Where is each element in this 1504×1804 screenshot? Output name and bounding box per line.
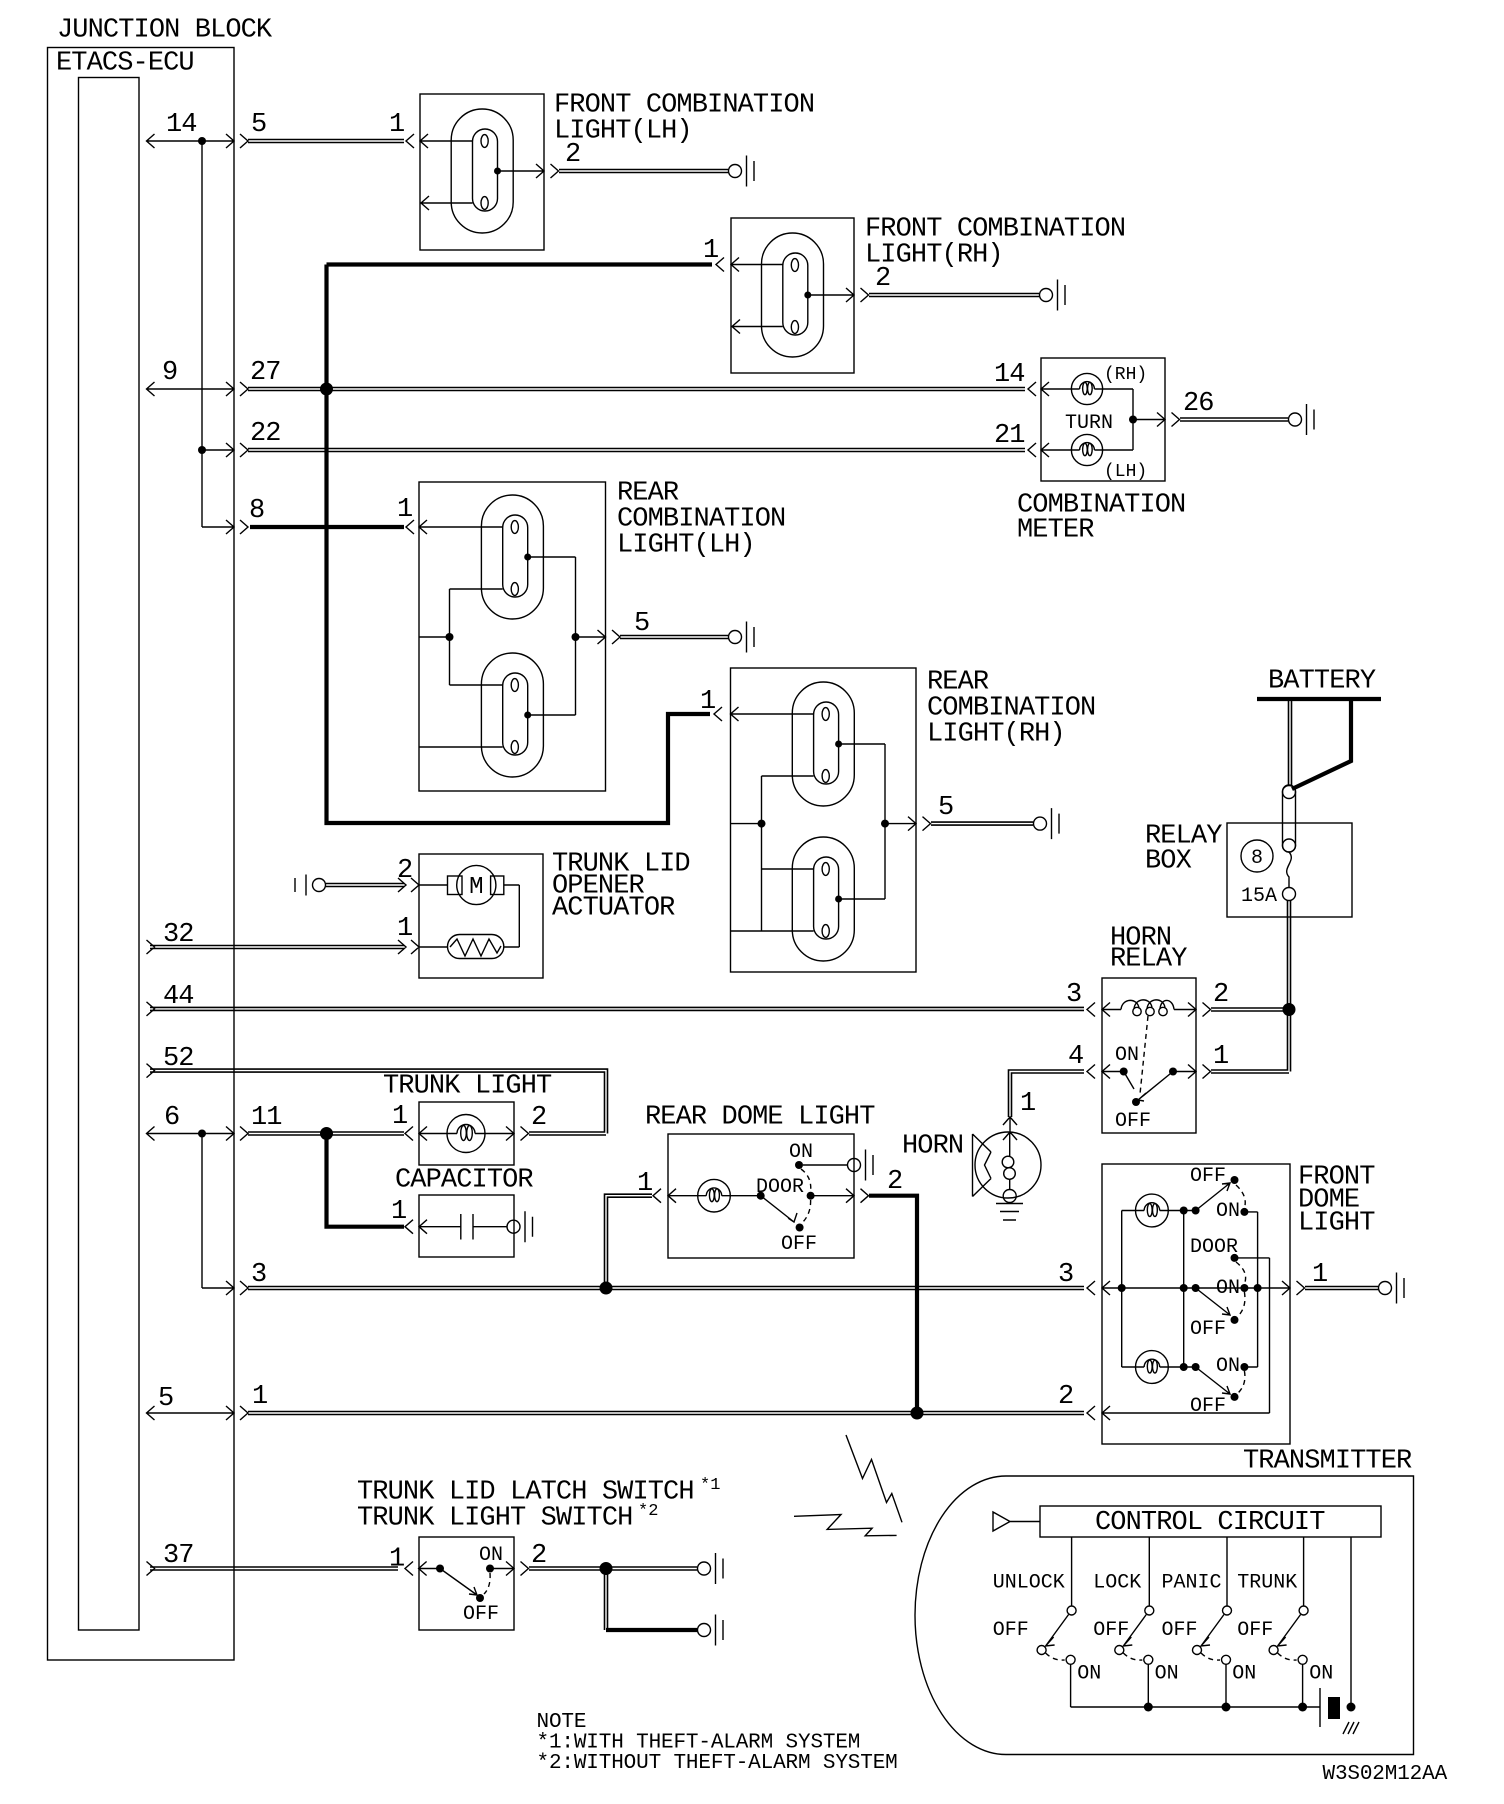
svg-text:PANIC: PANIC (1162, 1572, 1222, 1595)
svg-text:2: 2 (887, 1167, 902, 1197)
svg-text:OFF: OFF (1093, 1619, 1129, 1642)
svg-text:DOOR: DOOR (1190, 1236, 1238, 1259)
svg-text:2: 2 (531, 1103, 546, 1133)
svg-text:1: 1 (252, 1382, 267, 1412)
svg-text:METER: METER (1017, 516, 1094, 546)
svg-text:1: 1 (392, 1102, 407, 1132)
svg-text:OFF: OFF (1237, 1619, 1273, 1642)
svg-text:ON: ON (1115, 1044, 1139, 1067)
svg-text:CAPACITOR: CAPACITOR (395, 1166, 533, 1196)
svg-text:3: 3 (1066, 980, 1081, 1010)
svg-text:ON: ON (1309, 1663, 1333, 1686)
svg-text:ON: ON (1232, 1663, 1256, 1686)
svg-text:ON: ON (1155, 1663, 1179, 1686)
svg-text:ON: ON (1077, 1663, 1101, 1686)
svg-text:21: 21 (994, 421, 1025, 451)
svg-text:OFF: OFF (463, 1603, 499, 1626)
svg-text:15A: 15A (1241, 885, 1277, 908)
svg-text:ON: ON (1216, 1277, 1240, 1300)
svg-text:*2: *2 (638, 1502, 658, 1521)
svg-text:LIGHT(LH): LIGHT(LH) (617, 531, 755, 561)
svg-text:M: M (469, 874, 483, 901)
svg-text:11: 11 (251, 1103, 282, 1133)
svg-text:1: 1 (389, 1545, 404, 1575)
svg-text:JUNCTION BLOCK: JUNCTION BLOCK (57, 16, 273, 46)
svg-text:(LH): (LH) (1104, 462, 1147, 482)
svg-text:9: 9 (162, 358, 177, 388)
svg-text:22: 22 (250, 419, 281, 449)
svg-text:ETACS-ECU: ETACS-ECU (56, 49, 194, 79)
svg-text:5: 5 (634, 609, 649, 639)
svg-text:5: 5 (251, 110, 266, 140)
svg-text:TRUNK: TRUNK (1237, 1572, 1297, 1595)
svg-text:ON: ON (1216, 1200, 1240, 1223)
svg-text:ON: ON (1216, 1355, 1240, 1378)
svg-text:BOX: BOX (1145, 847, 1192, 877)
svg-text:3: 3 (1058, 1260, 1073, 1290)
svg-text:W3S02M12AA: W3S02M12AA (1323, 1763, 1448, 1786)
svg-text:1: 1 (397, 495, 412, 525)
svg-text:37: 37 (163, 1541, 194, 1571)
svg-text:REAR DOME LIGHT: REAR DOME LIGHT (645, 1103, 875, 1133)
svg-text:LIGHT: LIGHT (1298, 1209, 1375, 1239)
svg-text:2: 2 (531, 1541, 546, 1571)
svg-text:TURN: TURN (1065, 412, 1113, 435)
svg-text:CONTROL CIRCUIT: CONTROL CIRCUIT (1095, 1508, 1325, 1538)
svg-text:OFF: OFF (993, 1619, 1029, 1642)
svg-text:1: 1 (397, 914, 412, 944)
svg-text:(RH): (RH) (1104, 365, 1147, 385)
svg-text:4: 4 (1068, 1042, 1083, 1072)
svg-text:ON: ON (479, 1544, 503, 1567)
svg-text:1: 1 (391, 1197, 406, 1227)
svg-text:OFF: OFF (781, 1233, 817, 1256)
svg-text:BATTERY: BATTERY (1268, 667, 1376, 697)
svg-text:1: 1 (1312, 1260, 1327, 1290)
svg-text:OFF: OFF (1190, 1318, 1226, 1341)
svg-text:14: 14 (166, 110, 197, 140)
svg-text:1: 1 (703, 236, 718, 266)
svg-text:2: 2 (1058, 1382, 1073, 1412)
svg-text:2: 2 (1213, 980, 1228, 1010)
svg-text:TRUNK LIGHT SWITCH: TRUNK LIGHT SWITCH (357, 1504, 632, 1534)
svg-text:1: 1 (1020, 1089, 1035, 1119)
svg-text:OFF: OFF (1190, 1165, 1226, 1188)
svg-text:1: 1 (1213, 1042, 1228, 1072)
svg-text:2: 2 (397, 856, 412, 886)
svg-text:1: 1 (700, 687, 715, 717)
svg-text:44: 44 (163, 982, 194, 1012)
svg-text:1: 1 (389, 110, 404, 140)
svg-text:32: 32 (163, 920, 194, 950)
svg-text:TRANSMITTER: TRANSMITTER (1243, 1447, 1412, 1477)
svg-text:LIGHT(LH): LIGHT(LH) (554, 117, 692, 147)
svg-text:LIGHT(RH): LIGHT(RH) (865, 241, 1003, 271)
svg-text:26: 26 (1183, 389, 1214, 419)
svg-text:*2:WITHOUT THEFT-ALARM SYSTEM: *2:WITHOUT THEFT-ALARM SYSTEM (537, 1752, 898, 1775)
svg-text:1: 1 (637, 1169, 652, 1199)
svg-text:6: 6 (164, 1103, 179, 1133)
svg-text:LOCK: LOCK (1093, 1572, 1141, 1595)
svg-text:27: 27 (250, 358, 281, 388)
svg-text:RELAY: RELAY (1110, 945, 1187, 975)
svg-text:14: 14 (994, 360, 1025, 390)
svg-text:UNLOCK: UNLOCK (993, 1572, 1065, 1595)
svg-text:3: 3 (251, 1260, 266, 1290)
svg-text:LIGHT(RH): LIGHT(RH) (927, 720, 1065, 750)
svg-text:OFF: OFF (1190, 1395, 1226, 1418)
svg-text:HORN: HORN (902, 1132, 963, 1162)
svg-text:*1: *1 (700, 1476, 720, 1495)
svg-text:8: 8 (1251, 847, 1263, 870)
svg-text:52: 52 (163, 1044, 194, 1074)
svg-text:ON: ON (789, 1141, 813, 1164)
svg-text:ACTUATOR: ACTUATOR (552, 894, 675, 924)
svg-text:DOOR: DOOR (756, 1176, 804, 1199)
svg-text:8: 8 (249, 496, 264, 526)
svg-text:TRUNK LIGHT: TRUNK LIGHT (383, 1072, 552, 1102)
svg-text:OFF: OFF (1162, 1619, 1198, 1642)
svg-text:OFF: OFF (1115, 1110, 1151, 1133)
svg-text:5: 5 (938, 793, 953, 823)
svg-text:5: 5 (158, 1384, 173, 1414)
